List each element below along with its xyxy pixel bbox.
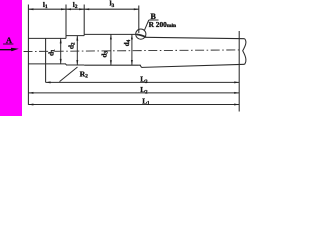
body bottom edge tapering xyxy=(143,64,245,67)
arrowhead l1 right xyxy=(61,8,66,10)
arrowhead L3 left xyxy=(46,81,51,83)
arrowhead d4 top xyxy=(131,34,133,39)
dimension line L1 xyxy=(28,104,239,106)
dimension line l2 xyxy=(66,8,84,10)
shaft outline section3 bottom xyxy=(84,64,138,66)
shaft outline section1 bottom xyxy=(28,63,66,65)
arrowhead d1 bottom xyxy=(60,59,62,64)
arrowhead d3 top xyxy=(110,34,112,39)
shaft step2 top xyxy=(83,34,85,35)
arrowhead l2 right xyxy=(79,8,84,10)
break line at right end xyxy=(243,39,246,65)
arrowhead L3 right xyxy=(234,81,239,83)
extension line step2 x=84.1 xyxy=(83,5,85,35)
shaft outline section1 top xyxy=(28,37,66,39)
leader line R2 xyxy=(60,67,78,82)
shaft outline section3 top xyxy=(84,33,137,35)
dimension line d3 xyxy=(110,34,112,65)
centerline dash-dot xyxy=(24,50,241,52)
arrowhead l3 right xyxy=(134,8,139,10)
view direction arrow A xyxy=(0,48,19,52)
dimension line d4 xyxy=(131,34,133,65)
arrowhead d2 top xyxy=(76,36,78,41)
arrowhead L2 left xyxy=(28,92,33,94)
arrowhead L1 right xyxy=(234,104,239,106)
underline of B xyxy=(149,19,159,21)
load line journal centre x=45.6 xyxy=(45,38,47,82)
arrowhead d2 bottom xyxy=(76,60,78,65)
dimension line l3 xyxy=(84,8,139,10)
arrowhead l3 left xyxy=(84,8,89,10)
dimension line L2 xyxy=(28,92,239,94)
shaft outline section2 top xyxy=(66,35,84,37)
arrowhead l2 left xyxy=(66,8,71,10)
dimension line d1 xyxy=(60,38,62,64)
shaft step1 top xyxy=(65,36,67,39)
arrowhead d1 top xyxy=(60,38,62,43)
leader line to B label xyxy=(144,20,149,31)
arrowhead l1 left xyxy=(28,8,33,10)
arrowhead L1 left xyxy=(28,104,33,106)
body top edge tapering xyxy=(146,37,245,38)
extension line right end x=239.5 xyxy=(238,31,240,112)
shaft step1 bottom xyxy=(65,64,67,65)
arrowhead L2 right xyxy=(234,92,239,94)
shaft outline section2 bottom xyxy=(66,64,84,66)
arrowhead d4 bottom xyxy=(131,60,133,65)
underline of A xyxy=(3,43,13,45)
magenta highlight strip xyxy=(0,0,22,116)
taper transition bottom xyxy=(139,65,143,67)
dimension line d2 xyxy=(76,36,78,65)
dimension line l1 xyxy=(28,8,66,10)
extension line taper point x=138.8 xyxy=(138,6,140,34)
shaft step2 bottom xyxy=(83,64,85,66)
arrowhead d3 bottom xyxy=(110,60,112,65)
taper transition top R200 xyxy=(137,34,146,37)
extension line step1 x=66.3 xyxy=(65,5,67,36)
detail circle B xyxy=(136,29,146,39)
extension line left end x=28.4 xyxy=(27,5,29,105)
dimension line L3 xyxy=(46,81,240,83)
